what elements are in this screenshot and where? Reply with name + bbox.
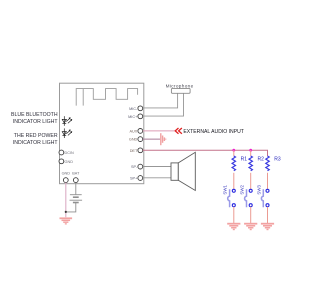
- svg-text:SP-: SP-: [131, 165, 138, 169]
- ground symbol (SW3): [261, 223, 274, 230]
- pin SP-: [131, 164, 143, 169]
- svg-text:SW2: SW2: [240, 185, 245, 195]
- branch wire R2 top: [250, 150, 252, 156]
- svg-text:R3: R3: [274, 156, 281, 162]
- pin DCIN: [59, 150, 74, 155]
- switch SW1: [223, 185, 236, 208]
- module U1 body: [60, 83, 144, 184]
- svg-text:AUX: AUX: [129, 129, 137, 133]
- ground symbol (SW2): [244, 223, 257, 230]
- pin DET: [130, 148, 143, 153]
- resistor R3: [266, 156, 281, 171]
- svg-text:DCIN: DCIN: [65, 151, 75, 155]
- pin BAT: [72, 172, 80, 183]
- svg-text:BLUE BLUETOOTH: BLUE BLUETOOTH: [11, 112, 58, 118]
- junction node on DET at R2: [249, 149, 252, 152]
- ground symbol (battery): [60, 217, 73, 224]
- pin GND (bottom): [62, 172, 71, 183]
- wire BAT pin to battery: [75, 183, 77, 195]
- LED D2 (red power indicator): [62, 128, 72, 138]
- antenna ANT1 meander: [76, 89, 137, 106]
- branch wire R1 top: [233, 150, 235, 156]
- svg-text:GND: GND: [62, 172, 71, 176]
- svg-text:INDICATOR LIGHT: INDICATOR LIGHT: [13, 119, 59, 125]
- svg-text:SW1: SW1: [223, 185, 228, 195]
- chassis ground symbol (red): [161, 133, 167, 145]
- svg-text:MIC-: MIC-: [129, 107, 138, 111]
- svg-text:R1: R1: [241, 156, 248, 162]
- wire battery to GND net: [66, 203, 76, 212]
- pin GND (right): [129, 137, 143, 142]
- wire SP+: [143, 177, 171, 179]
- pin GND (left): [59, 159, 73, 164]
- ground symbol (SW1): [227, 223, 240, 230]
- wire SP-: [143, 166, 171, 168]
- wire R2 to SW2: [250, 173, 252, 190]
- input port chevron: [175, 128, 182, 134]
- wire SW3 to ground: [267, 207, 269, 223]
- svg-text:EXTERNAL AUDIO INPUT: EXTERNAL AUDIO INPUT: [183, 129, 244, 135]
- battery BT1: [70, 195, 83, 203]
- svg-text:INDICATOR LIGHT: INDICATOR LIGHT: [13, 140, 59, 146]
- svg-text:MIC+: MIC+: [128, 115, 138, 119]
- pin MIC-: [129, 106, 143, 111]
- wire R3 to SW3: [267, 173, 269, 190]
- wire DET bus: [143, 150, 268, 156]
- svg-text:GND: GND: [129, 138, 138, 142]
- resistor R1: [232, 156, 247, 171]
- pin AUX: [129, 129, 142, 134]
- wire GND to chassis: [143, 138, 160, 140]
- svg-text:BAT: BAT: [72, 172, 80, 176]
- svg-text:SW3: SW3: [256, 185, 261, 195]
- label: BLUE BLUETOOTH INDICATOR LIGHT: [11, 112, 58, 125]
- pin SP+: [130, 176, 143, 181]
- svg-text:THE RED POWER: THE RED POWER: [14, 133, 58, 139]
- microphone MK1 body: [171, 88, 190, 93]
- junction node at GND/battery: [65, 211, 67, 213]
- svg-text:Microphone: Microphone: [166, 83, 194, 88]
- wire MIC+ to microphone: [143, 93, 184, 116]
- wire SW2 to ground: [250, 207, 252, 223]
- wire MIC- to microphone: [143, 93, 178, 108]
- switch SW2: [240, 185, 253, 208]
- svg-text:SP+: SP+: [130, 177, 138, 181]
- wire SW1 to ground: [233, 207, 235, 223]
- svg-text:GND: GND: [65, 160, 74, 164]
- resistor R2: [249, 156, 264, 171]
- junction node on DET at R1: [232, 149, 235, 152]
- LED D1 (blue bluetooth indicator): [62, 116, 72, 126]
- svg-text:DET: DET: [130, 149, 138, 153]
- speaker LS1: [171, 152, 195, 190]
- pin MIC+: [128, 114, 143, 119]
- switch SW3: [256, 185, 269, 208]
- wire GND pin to ground (pink): [65, 183, 67, 218]
- label: THE RED POWER INDICATOR LIGHT: [13, 133, 59, 146]
- wire AUX (external audio input): [143, 130, 175, 132]
- svg-text:R2: R2: [258, 156, 265, 162]
- wire R1 to SW1: [233, 173, 235, 190]
